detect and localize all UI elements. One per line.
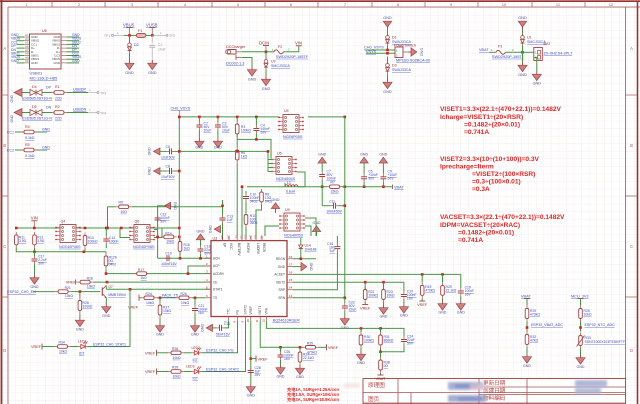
svg-text:GND: GND: [277, 375, 285, 379]
svg-text:56nF16V: 56nF16V: [216, 332, 230, 336]
svg-text:ESP32_CH0_STAT2: ESP32_CH0_STAT2: [206, 367, 239, 371]
svg-text:R26: R26: [181, 292, 187, 296]
ground under BAT pin2: [532, 71, 541, 81]
resistor R38 0R: [376, 352, 390, 381]
svg-text:ESD5B5.0ST1G-N: ESD5B5.0ST1G-N: [22, 117, 52, 121]
svg-text:C9: C9: [388, 170, 392, 174]
fuse F1: [136, 29, 146, 37]
capacitor C26: [278, 347, 294, 364]
svg-text:IDPM=VACSET÷(20×RAC): IDPM=VACSET÷(20×RAC): [440, 222, 520, 229]
svg-text:23: 23: [244, 235, 248, 239]
wire jack pin2 down to GND: [242, 58, 252, 67]
svg-text:GND: GND: [313, 221, 321, 225]
wire Q6 links: [154, 228, 162, 238]
power flag VIN: [31, 216, 38, 228]
svg-text:10kΩ: 10kΩ: [387, 294, 395, 298]
svg-text:10uF: 10uF: [158, 48, 166, 52]
net flag VBAT divider: [521, 294, 531, 305]
svg-text:A12: A12: [25, 59, 31, 63]
ground up arrow mid: [271, 198, 280, 213]
svg-text:10kΩ: 10kΩ: [584, 313, 592, 317]
frame row letters: [3, 46, 633, 353]
svg-text:R14: R14: [165, 231, 171, 235]
wire junction to BAT connector: [523, 51, 534, 53]
wire TS row: [157, 297, 176, 299]
thermistor R33 NTC: [577, 333, 626, 355]
wires U5 right to L1 row: [285, 172, 305, 187]
resistor R13: [83, 233, 98, 249]
svg-text:B: B: [630, 143, 633, 148]
svg-text:GND: GND: [383, 16, 392, 20]
power flag VBUS: [123, 23, 135, 36]
svg-text:VREF: VREF: [145, 352, 156, 356]
svg-text:REGN: REGN: [276, 257, 286, 261]
svg-text:ESP32_NTC_ADC: ESP32_NTC_ADC: [585, 323, 616, 327]
svg-text:18: 18: [289, 270, 293, 274]
svg-text:10uF: 10uF: [204, 129, 212, 133]
resistor R26b 10k: [579, 306, 592, 332]
svg-text:SWD2920P-185TF: SWD2920P-185TF: [492, 55, 525, 59]
svg-text:IDT: IDT: [79, 352, 84, 356]
svg-text:U9: U9: [285, 208, 290, 212]
svg-text:5.1kΩ: 5.1kΩ: [25, 154, 35, 158]
svg-text:GND: GND: [383, 90, 392, 94]
resistor R14: [156, 231, 180, 243]
svg-text:VIN: VIN: [295, 41, 302, 46]
svg-text:GND: GND: [148, 71, 157, 75]
svg-text:充电3A, SURge×18.9K/con: 充电3A, SURge×18.9K/con: [287, 396, 339, 403]
resistor R4 row CC1: [7, 125, 51, 140]
resistor R11: [14, 232, 26, 248]
svg-text:GND: GND: [156, 333, 164, 337]
TVS diode U2: [264, 52, 290, 76]
svg-text:DCIN: DCIN: [259, 41, 269, 46]
svg-text:GND: GND: [201, 324, 205, 332]
svg-text:15kΩ: 15kΩ: [331, 190, 339, 194]
ground under C1: [148, 60, 157, 70]
wires from buck into charger IC top: [245, 202, 247, 214]
svg-text:SWAJ33CA: SWAJ33CA: [392, 68, 411, 72]
svg-text:A: A: [3, 46, 6, 51]
svg-text:SRN: SRN: [278, 296, 285, 300]
svg-text:PACK_TS: PACK_TS: [162, 293, 179, 297]
svg-text:50V: 50V: [388, 177, 395, 181]
svg-text:PG: PG: [236, 309, 240, 314]
svg-text:25: 25: [220, 235, 224, 239]
svg-text:VREF: VREF: [66, 281, 77, 285]
svg-text:100kΩ: 100kΩ: [364, 339, 374, 343]
ground up arrow + capacitor C5 column: [360, 153, 378, 187]
svg-text:GND: GND: [278, 265, 286, 269]
resistor R7 on rail: [327, 181, 343, 194]
svg-text:VREF: VREF: [31, 345, 42, 349]
svg-text:C19: C19: [165, 252, 171, 256]
svg-text:VREF: VREF: [417, 303, 428, 307]
svg-text:U6: U6: [42, 29, 47, 33]
wire R31/C24 bottom join: [381, 345, 405, 352]
svg-text:GND: GND: [262, 87, 271, 91]
svg-text:USBDP: USBDP: [73, 88, 87, 92]
test point TP1: [104, 31, 124, 38]
svg-text:GND: GND: [357, 361, 365, 365]
svg-text:GND: GND: [457, 311, 465, 315]
capacitor C1 (dnp gray): [149, 35, 165, 60]
red formula text block VACSET: [440, 214, 565, 244]
svg-text:GND: GND: [11, 59, 19, 63]
svg-text:IDT: IDT: [193, 377, 198, 381]
mosfet U9 NCE4005S: [279, 208, 304, 237]
capacitor C23: [216, 322, 230, 336]
svg-text:R4: R4: [25, 125, 30, 129]
svg-text:VACSET=3.3×(22.1÷(470+22.1))=0: VACSET=3.3×(22.1÷(470+22.1))=0.1482V: [440, 214, 565, 221]
svg-text:VUSB: VUSB: [146, 23, 158, 28]
svg-text:GND: GND: [533, 82, 542, 86]
svg-text:50V: 50V: [407, 342, 414, 346]
svg-text:NCE4005S: NCE4005S: [276, 177, 295, 181]
connector DCCharger barrel jack: [226, 45, 246, 66]
svg-text:Q7: Q7: [108, 285, 113, 289]
svg-text:C5: C5: [368, 170, 372, 174]
svg-text:VFB: VFB: [264, 308, 268, 314]
svg-text:GND: GND: [148, 147, 152, 155]
svg-text:GND: GND: [296, 375, 304, 379]
red formula text block VISET2: [440, 156, 540, 193]
svg-text:10kΩ: 10kΩ: [59, 350, 67, 354]
svg-text:GND: GND: [379, 153, 387, 157]
svg-text:STAT1: STAT1: [213, 288, 223, 292]
svg-text:GND: GND: [102, 314, 110, 318]
svg-text:ACP: ACP: [213, 264, 220, 268]
svg-text:GND: GND: [197, 230, 205, 234]
svg-text:24: 24: [249, 235, 253, 239]
svg-text:C11: C11: [329, 199, 335, 203]
svg-text:10uF: 10uF: [222, 129, 230, 133]
ladder junctions on ACSET/ISET2 wires: [364, 273, 444, 283]
wire ACSET long: [293, 273, 461, 275]
svg-text:GND: GND: [125, 71, 134, 75]
wire REGN pin to U14: [293, 258, 316, 260]
svg-text:3.9Ω: 3.9Ω: [19, 239, 27, 243]
svg-text:原理图: 原理图: [368, 381, 385, 389]
svg-text:GND: GND: [191, 333, 199, 337]
svg-text:C: C: [3, 244, 6, 249]
svg-text:D2: D2: [134, 43, 139, 47]
svg-text:=0.3A: =0.3A: [472, 186, 490, 193]
svg-text:Icharge=VISET1÷(20×RSR): Icharge=VISET1÷(20×RSR): [440, 114, 523, 121]
capacitor C12: [155, 213, 170, 224]
svg-text:NCE40P06S: NCE40P06S: [59, 245, 81, 249]
svg-text:16V: 16V: [465, 293, 472, 297]
resistor R17: [134, 268, 150, 280]
svg-text:100kΩ: 100kΩ: [241, 129, 251, 133]
svg-text:21: 21: [235, 235, 239, 239]
svg-text:GND: GND: [523, 364, 531, 368]
svg-text:R35: R35: [307, 341, 313, 345]
svg-text:R39: R39: [172, 366, 178, 370]
svg-text:22.1kΩ: 22.1kΩ: [303, 356, 314, 360]
USB01 left pins: [24, 37, 30, 63]
svg-text:GND: GND: [439, 311, 447, 315]
svg-text:D4: D4: [32, 85, 37, 89]
wire left vertical rail: [178, 117, 180, 229]
svg-text:VBUS: VBUS: [123, 23, 135, 28]
svg-text:10kΩ: 10kΩ: [146, 301, 154, 305]
transistor Q7 MMBT3904: [102, 285, 126, 298]
svg-text:14: 14: [289, 286, 293, 290]
svg-text:TP4: TP4: [100, 112, 106, 116]
svg-text:=VISET2÷(100×RSR): =VISET2÷(100×RSR): [472, 171, 535, 178]
svg-text:GND: GND: [214, 146, 222, 150]
wire ESP32_CH0_PG: [202, 321, 238, 353]
net flag CH0_VSYS: [171, 107, 191, 117]
svg-text:VREF: VREF: [258, 357, 269, 361]
resistor R23 10k: [382, 282, 395, 304]
svg-text:GND: GND: [10, 94, 14, 102]
svg-text:12: 12: [261, 319, 265, 323]
net flag VREF at R18: [66, 280, 77, 285]
svg-text:NCE4005S: NCE4005S: [284, 233, 303, 237]
svg-text:ESP32_VBAT_ADC: ESP32_VBAT_ADC: [531, 323, 563, 327]
LED3 row: net flag VREF: [145, 369, 168, 375]
mosfet U5 NCE4005S: [267, 150, 297, 181]
svg-text:Iprecharge=Iterm: Iprecharge=Iterm: [440, 164, 494, 171]
svg-text:U2: U2: [271, 60, 276, 64]
svg-text:DN: DN: [46, 106, 52, 110]
ground right arrow at U3 GND pin: [293, 262, 313, 271]
junction nodes on VBAT rail: [321, 185, 385, 188]
svg-text:EP: EP: [223, 243, 227, 247]
svg-text:100kΩ: 100kΩ: [368, 294, 378, 298]
resistor R19 470k: [417, 274, 435, 307]
test point TP2: [152, 31, 175, 38]
svg-text:10kΩ: 10kΩ: [173, 356, 181, 360]
svg-text:10uF50V: 10uF50V: [161, 175, 175, 179]
capacitor C29 1uF: [248, 366, 261, 377]
wire VFB rail: [266, 321, 404, 337]
svg-text:100nF16V: 100nF16V: [161, 262, 177, 266]
svg-text:U1: U1: [527, 36, 532, 40]
junction node at BAT: [521, 51, 524, 54]
fuse F2: [266, 45, 309, 59]
capacitor C20 on ISET2: [401, 282, 417, 303]
net flag MCU_3V3 divider: [571, 294, 589, 305]
svg-text:VISET1=3.3×(22.1÷(470+22.1))=0: VISET1=3.3×(22.1÷(470+22.1))=0.1482V: [440, 106, 562, 113]
svg-text:F1: F1: [138, 29, 142, 33]
svg-text:CC2: CC2: [7, 149, 14, 153]
title block table: [363, 379, 626, 404]
svg-text:470kΩ: 470kΩ: [425, 289, 435, 293]
ground arrow top-left of U3 area: [164, 202, 177, 210]
svg-text:GND: GND: [10, 114, 14, 122]
svg-text:100nF: 100nF: [109, 240, 119, 244]
LED1 row: net flag VREF: [31, 344, 55, 350]
svg-text:22Ω: 22Ω: [55, 117, 62, 121]
net label ESP32_VBAT_ADC: [526, 326, 529, 329]
wire ACN row: [158, 257, 211, 259]
wire VSYS rails into PowerSwitch: [365, 49, 395, 51]
resistor R27 pulldown TS: [158, 298, 171, 323]
svg-text:=0.741A: =0.741A: [464, 129, 489, 136]
svg-text:GND: GND: [420, 48, 424, 57]
resistor R32 47k: [525, 332, 538, 354]
USB01 right pins: [61, 37, 67, 63]
svg-text:10: 10: [502, 2, 507, 7]
capacitor C25 on ACSET: [458, 274, 474, 300]
censored blur blobs in title block: [344, 380, 607, 402]
svg-text:U5: U5: [277, 152, 282, 156]
svg-text:DC002-1.3: DC002-1.3: [226, 62, 244, 66]
power flag DCIN: [259, 41, 269, 52]
svg-text:50V: 50V: [160, 220, 167, 224]
svg-text:STAT2: STAT2: [244, 305, 248, 315]
svg-text:ACDRV: ACDRV: [213, 272, 225, 276]
LED LED3: [184, 365, 202, 381]
svg-text:50V: 50V: [260, 131, 267, 135]
svg-text:GND: GND: [72, 59, 80, 63]
svg-text:R2: R2: [55, 105, 60, 109]
svg-text:C1: C1: [158, 43, 162, 47]
TVS diode D2: [128, 35, 139, 60]
svg-text:TP1: TP1: [104, 34, 110, 38]
svg-text:MMBT3904: MMBT3904: [108, 293, 126, 297]
switch PowerSwitch: [394, 44, 430, 63]
svg-text:F2: F2: [278, 45, 282, 49]
resistor R36: [168, 347, 184, 360]
capacitor C19 on ACN row: [161, 252, 177, 266]
U3 right pins: [287, 259, 293, 298]
svg-text:GND: GND: [577, 365, 585, 369]
svg-text:GND: GND: [518, 16, 527, 20]
junction node VBUS: [128, 34, 131, 37]
svg-text:R5: R5: [25, 143, 30, 147]
resistor R8: [260, 189, 273, 205]
svg-text:IDT: IDT: [193, 358, 198, 362]
capacitor C11: [322, 199, 346, 213]
ground under R28: [75, 317, 84, 327]
svg-text:NCE40P06S: NCE40P06S: [133, 245, 155, 249]
svg-text:GND: GND: [360, 153, 368, 157]
wire VIN rail: [16, 227, 179, 229]
svg-text:11: 11: [255, 319, 259, 322]
svg-text:ISET2: ISET2: [276, 280, 285, 284]
fuse F3: [489, 45, 525, 59]
capacitor C21: [192, 298, 208, 323]
svg-text:D5: D5: [32, 105, 37, 109]
svg-text:GND: GND: [380, 315, 388, 319]
svg-text:CE: CE: [213, 280, 217, 284]
red annotation small text bottom: [287, 386, 339, 403]
wire TTC to C23: [225, 321, 229, 328]
svg-text:R36: R36: [172, 347, 178, 351]
svg-text:GND: GND: [518, 73, 527, 77]
svg-text:16V: 16V: [407, 297, 414, 301]
svg-text:GND: GND: [148, 167, 152, 175]
svg-text:TS: TS: [213, 296, 217, 300]
svg-text:50V: 50V: [368, 177, 375, 181]
capacitor C17: [32, 252, 47, 275]
svg-text:25V: 25V: [255, 373, 262, 377]
wire VSYS top rail: [179, 116, 279, 118]
svg-text:470kΩ: 470kΩ: [307, 350, 317, 354]
svg-text:=0.1482÷(20×0.01): =0.1482÷(20×0.01): [458, 230, 514, 237]
ground up arrow + capacitor C7 column: [318, 153, 336, 205]
wire jack pin1 to DCIN junction: [242, 51, 266, 53]
svg-text:10kΩ: 10kΩ: [87, 285, 95, 289]
svg-text:CC1: CC1: [7, 131, 14, 135]
net flag VREF at TS row: [128, 295, 141, 310]
wire ESP32_CH0_STAT2: [202, 321, 246, 372]
svg-text:10kΩ: 10kΩ: [173, 375, 181, 379]
svg-text:TP3: TP3: [100, 92, 106, 96]
svg-text:D1: D1: [392, 36, 397, 40]
junction node DCIN: [265, 51, 268, 54]
U3 bottom pins: [229, 317, 267, 322]
resistor R35 470k on ISET1: [303, 341, 339, 354]
wire VREF pin column: [250, 321, 252, 384]
ground left arrow at C8: [148, 167, 161, 175]
resistor R26: [176, 292, 192, 305]
svg-text:10kΩ: 10kΩ: [163, 309, 171, 313]
power flag VIN: [295, 41, 302, 46]
svg-text:GND: GND: [76, 328, 84, 332]
svg-text:图页: 图页: [368, 395, 380, 403]
net flag VREF right arrow: [250, 356, 269, 362]
svg-text:B: B: [3, 143, 6, 148]
svg-text:ESP32_CH0_PG: ESP32_CH0_PG: [206, 349, 234, 353]
svg-text:Q4: Q4: [61, 220, 66, 224]
frame column numbers: [25, 2, 614, 7]
svg-text:17: 17: [289, 263, 293, 267]
net label VBAT right: [393, 185, 405, 190]
resistor R29 470k: [525, 306, 540, 332]
svg-text:R21: R21: [65, 286, 71, 290]
ground under U2: [261, 76, 270, 86]
ground above D1 (up arrow): [383, 16, 392, 31]
svg-text:GND: GND: [400, 314, 408, 318]
svg-text:ESP32_CH0_EN: ESP32_CH0_EN: [7, 290, 36, 294]
svg-text:12: 12: [609, 2, 614, 7]
svg-text:GND: GND: [272, 198, 280, 202]
wire left loop x=157: [158, 206, 164, 258]
capacitor C13 column: [220, 200, 234, 241]
ground under D2: [125, 60, 134, 70]
svg-text:=0.3÷(100×0.01): =0.3÷(100×0.01): [472, 179, 521, 186]
resistor R34: [55, 341, 71, 354]
wire F1 to VUSB junction: [146, 34, 152, 36]
svg-text:GND: GND: [248, 78, 257, 82]
wire ACDRV row: [106, 273, 211, 275]
capacitor C22 + ground: [342, 298, 357, 316]
svg-text:GND: GND: [195, 146, 203, 150]
wire main vertical rail x=344.8: [344, 117, 346, 298]
svg-text:R34: R34: [59, 341, 65, 345]
ground up arrow right of U9: [312, 221, 321, 236]
svg-text:MC-116LD-H85: MC-116LD-H85: [30, 76, 58, 81]
capacitor C3: [215, 117, 230, 138]
svg-text:R7: R7: [331, 181, 335, 185]
USB01 right pin net labels: [72, 33, 82, 63]
svg-text:VBAT: VBAT: [394, 185, 404, 189]
svg-text:GND: GND: [309, 263, 313, 271]
TVS diode D3: [386, 57, 412, 80]
capacitor C24: [401, 335, 415, 346]
svg-text:BAT: BAT: [544, 42, 552, 46]
svg-text:R17: R17: [138, 268, 144, 272]
net label ESP32_NTC_ADC: [579, 326, 582, 329]
svg-text:BATDRV: BATDRV: [237, 243, 241, 257]
svg-text:VCC: VCC: [229, 243, 233, 250]
svg-text:ISET1: ISET1: [258, 305, 262, 314]
